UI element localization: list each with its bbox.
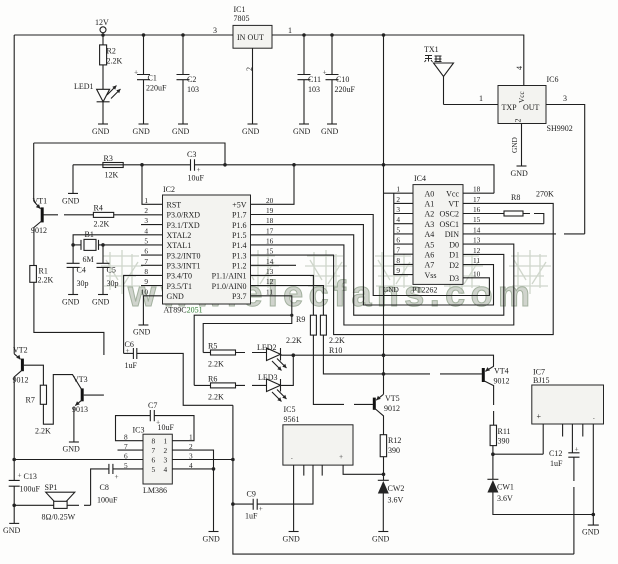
svg-text:1: 1 bbox=[396, 185, 400, 194]
svg-text:R9: R9 bbox=[296, 315, 305, 324]
svg-text:20: 20 bbox=[266, 196, 274, 205]
svg-text:C8: C8 bbox=[100, 483, 109, 492]
resistor R6 2.2K bbox=[194, 375, 266, 402]
svg-text:GND: GND bbox=[62, 298, 80, 307]
svg-text:P3.5/T1: P3.5/T1 bbox=[167, 282, 193, 291]
svg-text:390: 390 bbox=[388, 446, 400, 455]
crystal B1 6M bbox=[73, 230, 162, 264]
svg-text:8: 8 bbox=[144, 267, 148, 276]
ground C5 bbox=[92, 295, 110, 307]
resistor R3 12K bbox=[103, 154, 123, 180]
wire bottom rail bbox=[233, 405, 574, 554]
svg-text:2: 2 bbox=[164, 446, 168, 455]
svg-text:10uF: 10uF bbox=[158, 423, 175, 432]
svg-text:2: 2 bbox=[144, 206, 148, 215]
pin IC7 p2 bbox=[562, 424, 564, 437]
svg-text:GND: GND bbox=[63, 445, 81, 454]
svg-text:Vss: Vss bbox=[425, 271, 437, 280]
pin stub A0 bbox=[384, 192, 414, 194]
zener CW2 3.6V bbox=[378, 480, 405, 531]
pin IC5 stub2 bbox=[303, 465, 305, 476]
pin IC5 output to R12 node bbox=[343, 465, 383, 474]
svg-text:220uF: 220uF bbox=[335, 85, 356, 94]
svg-text:P1.0/AIN0: P1.0/AIN0 bbox=[212, 282, 247, 291]
pin 2 IC6 to ground bbox=[510, 124, 522, 167]
svg-text:IC1: IC1 bbox=[234, 5, 246, 14]
svg-text:12: 12 bbox=[266, 277, 274, 286]
resistor R7 2.2K bbox=[26, 385, 47, 404]
junction pin20 node bbox=[292, 163, 296, 167]
wire 5V distribution line R3 to IC4 Vcc bbox=[73, 165, 494, 193]
wire RST branch bbox=[142, 165, 163, 205]
svg-text:Vcc: Vcc bbox=[446, 189, 459, 198]
svg-text:3: 3 bbox=[213, 26, 217, 35]
junction C11 rail bbox=[302, 33, 306, 37]
svg-text:VT4: VT4 bbox=[494, 367, 509, 376]
pin IC7 p4 bbox=[582, 424, 584, 437]
svg-text:4: 4 bbox=[396, 215, 400, 224]
pin IC5 stub4 bbox=[321, 465, 323, 476]
svg-text:2.2K: 2.2K bbox=[329, 336, 345, 345]
wire DIN pin14 bbox=[463, 233, 585, 235]
resistor R11 390 bbox=[490, 425, 510, 445]
wire R9 to VT5 base bbox=[313, 335, 373, 404]
svg-text:.: . bbox=[291, 452, 293, 461]
svg-text:19: 19 bbox=[266, 206, 274, 215]
mcu IC2 right pin numbers bbox=[266, 196, 274, 296]
transistor VT1 9012 bbox=[31, 143, 47, 266]
junction speaker border bbox=[12, 504, 16, 508]
ground C2 bbox=[172, 124, 190, 136]
svg-text:2.2K: 2.2K bbox=[38, 276, 54, 285]
svg-text:XTAL2: XTAL2 bbox=[167, 231, 192, 240]
svg-text:9012: 9012 bbox=[384, 404, 400, 413]
svg-text:12: 12 bbox=[473, 246, 481, 255]
capacitor C12 1uF bbox=[549, 445, 580, 555]
svg-text:100uF: 100uF bbox=[20, 485, 41, 494]
svg-text:10: 10 bbox=[141, 287, 149, 296]
wire D2 net pin11 to P1.6 bbox=[251, 225, 494, 305]
ground C1 bbox=[133, 124, 151, 136]
junction C9 left bbox=[231, 502, 235, 506]
svg-text:2.2K: 2.2K bbox=[94, 220, 110, 229]
svg-text:9: 9 bbox=[144, 277, 148, 286]
svg-text:P3.4/T0: P3.4/T0 bbox=[167, 272, 193, 281]
svg-text:P1.2: P1.2 bbox=[232, 262, 246, 271]
ground C10 bbox=[321, 124, 339, 136]
svg-text:VT3: VT3 bbox=[73, 375, 88, 384]
svg-text:R10: R10 bbox=[329, 346, 342, 355]
svg-text:4: 4 bbox=[515, 66, 524, 70]
junction R12 IC5 bbox=[382, 473, 386, 477]
svg-text:1uF: 1uF bbox=[550, 459, 563, 468]
svg-text:12K: 12K bbox=[105, 171, 119, 180]
ground LED1 bbox=[92, 124, 110, 136]
ground CW1 node bbox=[582, 515, 600, 537]
wire pin20 +5V branch bbox=[251, 165, 295, 205]
junction B1 right bbox=[101, 243, 105, 247]
pin stub A4 bbox=[394, 233, 413, 235]
LED LED3 bbox=[258, 355, 293, 401]
svg-text:P3.1/TXD: P3.1/TXD bbox=[167, 221, 200, 230]
svg-text:GND: GND bbox=[510, 137, 519, 153]
svg-text:12V: 12V bbox=[95, 18, 109, 27]
junction R11 IC7 bbox=[491, 452, 495, 456]
junction CW1 gnd bbox=[592, 513, 596, 517]
svg-text:GND: GND bbox=[321, 127, 339, 136]
svg-text:LM386: LM386 bbox=[143, 486, 167, 495]
capacitor C7 10uF loop bbox=[116, 401, 195, 441]
svg-text:30p: 30p bbox=[77, 279, 89, 288]
wire P3.7 branch bbox=[194, 296, 292, 386]
svg-text:OSC2: OSC2 bbox=[439, 210, 459, 219]
junction bottom left pin3 bbox=[231, 458, 235, 462]
capacitor C4 30p bbox=[67, 245, 89, 295]
junction LED2 LED3 link bbox=[292, 353, 296, 357]
svg-text:+: + bbox=[259, 504, 263, 513]
svg-text:7: 7 bbox=[152, 446, 156, 455]
svg-text:3: 3 bbox=[144, 216, 148, 225]
junction C10 rail bbox=[330, 33, 334, 37]
svg-text:+: + bbox=[134, 68, 138, 77]
svg-text:GND: GND bbox=[92, 298, 110, 307]
svg-text:VT2: VT2 bbox=[13, 346, 28, 355]
svg-text:3: 3 bbox=[396, 205, 400, 214]
wire R11 node to IC7 pin bbox=[493, 453, 543, 455]
svg-text:R7: R7 bbox=[26, 396, 35, 405]
svg-text:C1: C1 bbox=[148, 74, 157, 83]
svg-text:2: 2 bbox=[396, 195, 400, 204]
svg-text:R4: R4 bbox=[94, 204, 103, 213]
pin stub A6 bbox=[394, 253, 413, 255]
svg-text:C2: C2 bbox=[187, 75, 196, 84]
svg-text:A1: A1 bbox=[425, 200, 435, 209]
wire D3 net pin10 to P1.7 bbox=[251, 215, 490, 296]
resistor R10 2.2K bbox=[320, 315, 345, 355]
ground IC3 p2 bbox=[203, 532, 221, 544]
ground C11 bbox=[293, 124, 311, 136]
ground C4 bbox=[62, 295, 80, 307]
svg-text:9: 9 bbox=[396, 266, 400, 275]
svg-text:18: 18 bbox=[266, 216, 274, 225]
svg-text:P1.4: P1.4 bbox=[232, 241, 246, 250]
svg-text:1: 1 bbox=[479, 94, 483, 103]
svg-text:C11: C11 bbox=[308, 75, 321, 84]
transistor VT3 9013 bbox=[72, 375, 104, 442]
svg-text:1uF: 1uF bbox=[125, 361, 138, 370]
pin stub A1 bbox=[394, 202, 413, 204]
svg-text:VT5: VT5 bbox=[385, 394, 400, 403]
resistor R1 2.2K bbox=[30, 266, 54, 285]
wire P1.0 to R10 bbox=[251, 286, 324, 316]
svg-text:A7: A7 bbox=[425, 261, 435, 270]
svg-text:6: 6 bbox=[152, 456, 156, 465]
transistor VT2 9012 bbox=[13, 346, 29, 385]
svg-text:C7: C7 bbox=[148, 401, 157, 410]
svg-text:LED3: LED3 bbox=[258, 373, 278, 382]
svg-text:VT: VT bbox=[448, 200, 459, 209]
svg-text:2.2K: 2.2K bbox=[35, 427, 51, 436]
encoder IC4 PT2262 body bbox=[413, 174, 463, 284]
svg-text:8Ω/0.25W: 8Ω/0.25W bbox=[42, 513, 76, 522]
svg-text:9013: 9013 bbox=[72, 405, 88, 414]
pin 2 IC1 to ground bbox=[245, 48, 254, 124]
svg-text:Vcc: Vcc bbox=[517, 90, 526, 103]
transistor VT4 9012 bbox=[466, 355, 510, 425]
junction 5V link node bbox=[223, 163, 227, 167]
resistor R9 2.2K bbox=[286, 315, 316, 345]
svg-text:9012: 9012 bbox=[31, 226, 47, 235]
svg-text:13: 13 bbox=[473, 236, 481, 245]
svg-text:2.2K: 2.2K bbox=[208, 360, 224, 369]
wire R7 jog to VT3 base bbox=[43, 375, 81, 425]
svg-text:R2: R2 bbox=[107, 47, 116, 56]
capacitor C1 220uF bbox=[134, 35, 167, 124]
svg-text:RST: RST bbox=[167, 201, 182, 210]
svg-text:5: 5 bbox=[152, 465, 156, 474]
antenna TX1 bbox=[424, 45, 454, 105]
svg-text:P3.0/RXD: P3.0/RXD bbox=[167, 211, 201, 220]
svg-text:5: 5 bbox=[144, 236, 148, 245]
pin IC7 p3 to C12 bbox=[571, 424, 573, 453]
svg-text:LED1: LED1 bbox=[74, 82, 94, 91]
pin stub A5 bbox=[394, 243, 413, 245]
svg-text:SP1: SP1 bbox=[45, 483, 58, 492]
svg-text:GND: GND bbox=[92, 127, 110, 136]
svg-text:BJ15: BJ15 bbox=[533, 376, 549, 385]
svg-text:1: 1 bbox=[144, 196, 148, 205]
svg-text:GND: GND bbox=[383, 285, 399, 294]
junction B1 left bbox=[71, 243, 75, 247]
svg-text:390: 390 bbox=[498, 437, 510, 446]
svg-text:3: 3 bbox=[563, 94, 567, 103]
junction P3.7 R6 bbox=[290, 314, 293, 317]
svg-text:P1.5: P1.5 bbox=[232, 231, 246, 240]
svg-text:GND: GND bbox=[62, 196, 80, 205]
svg-text:P3.3/INT1: P3.3/INT1 bbox=[167, 262, 201, 271]
svg-text:11: 11 bbox=[266, 287, 273, 296]
wire OSC1 pin15 bbox=[463, 223, 544, 225]
svg-text:R12: R12 bbox=[388, 436, 401, 445]
svg-text:GND: GND bbox=[511, 169, 529, 178]
resistor R8 270K bbox=[463, 190, 554, 224]
wire +12V top rail left segment bbox=[14, 34, 233, 36]
svg-text:GND: GND bbox=[242, 127, 260, 136]
svg-text:4: 4 bbox=[144, 226, 148, 235]
svg-text:8: 8 bbox=[152, 437, 156, 446]
svg-text:R8: R8 bbox=[511, 193, 520, 202]
svg-text:P3.7: P3.7 bbox=[232, 292, 246, 301]
svg-text:5: 5 bbox=[396, 225, 400, 234]
svg-text:17: 17 bbox=[473, 195, 481, 204]
svg-text:100uF: 100uF bbox=[97, 496, 118, 505]
svg-text:CW1: CW1 bbox=[497, 483, 514, 492]
svg-text:+: + bbox=[18, 471, 22, 480]
pin stub A7 bbox=[394, 263, 413, 265]
sound chip IC5 9561 body bbox=[283, 405, 353, 465]
svg-text:4: 4 bbox=[164, 465, 168, 474]
junction C2 rail bbox=[181, 33, 185, 37]
wire VT2 base to R7 bbox=[24, 365, 44, 385]
pin stub P3.2 bbox=[141, 254, 163, 256]
wire top rail right segment from IC1 out to IC6 pin4 drop bbox=[272, 35, 524, 86]
svg-text:7805: 7805 bbox=[234, 14, 250, 23]
wire 5V node to VT1 emitter top link bbox=[34, 143, 225, 165]
capacitor C8 100uF bbox=[91, 464, 143, 505]
svg-text:18: 18 bbox=[473, 185, 481, 194]
mcu IC2 left pin numbers bbox=[141, 196, 149, 296]
svg-text:GND: GND bbox=[582, 528, 600, 537]
svg-text:220uF: 220uF bbox=[146, 84, 167, 93]
ground IC2 bbox=[133, 325, 151, 337]
svg-text:17: 17 bbox=[266, 226, 274, 235]
svg-text:GND: GND bbox=[203, 535, 221, 544]
svg-text:GND: GND bbox=[133, 328, 151, 337]
svg-text:GND: GND bbox=[283, 535, 301, 544]
speaker SP1 bbox=[14, 483, 90, 522]
svg-text:R11: R11 bbox=[498, 427, 511, 436]
junction spine 5V node bbox=[382, 163, 386, 167]
svg-text:.: . bbox=[593, 412, 595, 421]
pin IC5 gnd bbox=[293, 465, 295, 531]
encoder IC4 pin name labels bbox=[425, 189, 460, 283]
svg-text:C13: C13 bbox=[24, 472, 37, 481]
svg-text:+: + bbox=[339, 452, 343, 461]
capacitor C9 1uF bbox=[233, 490, 263, 521]
svg-text:+: + bbox=[537, 412, 542, 421]
pin IC7 p5 to gnd bbox=[592, 424, 594, 515]
svg-text:R6: R6 bbox=[208, 375, 217, 384]
svg-text:IC5: IC5 bbox=[284, 405, 296, 414]
capacitor C2 103 bbox=[177, 35, 200, 124]
svg-text:C4: C4 bbox=[77, 266, 86, 275]
svg-text:PT2262: PT2262 bbox=[412, 286, 437, 295]
wire R11 to CW1 bbox=[492, 446, 494, 480]
svg-text:R5: R5 bbox=[208, 342, 217, 351]
pin stub A3 bbox=[394, 223, 413, 225]
junction border p6 bbox=[12, 458, 16, 462]
pin stub A2 bbox=[394, 213, 413, 215]
svg-text:GND: GND bbox=[167, 292, 185, 301]
wire R10 to VT4 base bbox=[323, 335, 482, 374]
svg-text:AT89C2051: AT89C2051 bbox=[164, 306, 203, 315]
zener CW1 3.6V bbox=[487, 479, 593, 514]
ground CW2 bbox=[372, 532, 390, 544]
svg-text:D0: D0 bbox=[449, 240, 459, 249]
svg-text:2: 2 bbox=[245, 67, 254, 71]
svg-text:103: 103 bbox=[308, 85, 320, 94]
transistor VT5 9012 bbox=[374, 394, 400, 435]
capacitor C5 30p bbox=[97, 245, 119, 295]
svg-text:P1.6: P1.6 bbox=[232, 221, 246, 230]
watermark chinese characters bbox=[101, 250, 551, 294]
pin stub P3.1 bbox=[141, 224, 163, 226]
wire P1.1 to R9 bbox=[251, 275, 314, 315]
junction p4 p2 bbox=[212, 467, 216, 471]
wire R1 to VT3 collector node bbox=[34, 282, 104, 355]
svg-text:TXP: TXP bbox=[502, 103, 518, 112]
svg-text:SH9902: SH9902 bbox=[547, 124, 573, 133]
svg-text:9012: 9012 bbox=[13, 376, 29, 385]
svg-text:B1: B1 bbox=[85, 230, 94, 239]
svg-text:XTAL1: XTAL1 bbox=[167, 241, 192, 250]
svg-text:14: 14 bbox=[266, 257, 274, 266]
svg-text:P1.7: P1.7 bbox=[232, 211, 246, 220]
svg-text:30p: 30p bbox=[107, 279, 119, 288]
wire VT2 collector down border bbox=[13, 381, 15, 480]
pin stub P3.5 bbox=[141, 285, 163, 287]
wire P3.4/T0 to C6 bbox=[124, 275, 163, 353]
mcu IC2 AT89C2051 body bbox=[163, 185, 251, 304]
LED LED2 bbox=[257, 343, 466, 371]
svg-text:D1: D1 bbox=[449, 251, 459, 260]
svg-text:+: + bbox=[323, 68, 327, 77]
svg-text:IC4: IC4 bbox=[414, 174, 426, 183]
svg-text:D3: D3 bbox=[449, 274, 459, 283]
pin stub IC3 p7 bbox=[118, 449, 144, 451]
svg-text:VT1: VT1 bbox=[33, 197, 48, 206]
amplifier IC3 outside pin numbers bbox=[124, 433, 193, 470]
svg-text:CW2: CW2 bbox=[388, 484, 405, 493]
junction 5V spine rail bbox=[382, 33, 386, 37]
node 12V supply bbox=[95, 18, 109, 37]
svg-text:11: 11 bbox=[473, 256, 480, 265]
wire IC3 p3 bbox=[172, 459, 233, 461]
wire IC3 p6 to border bbox=[14, 459, 143, 461]
svg-text:GND: GND bbox=[3, 526, 21, 535]
audio ic IC7 BJ15 body bbox=[532, 368, 604, 425]
svg-text:A5: A5 bbox=[425, 240, 435, 249]
resistor R12 390 bbox=[380, 435, 401, 457]
amplifier IC3 LM386 body bbox=[133, 426, 173, 496]
capacitor C13 100uF bbox=[9, 471, 41, 524]
svg-text:2: 2 bbox=[514, 119, 523, 123]
svg-text:14: 14 bbox=[473, 225, 481, 234]
svg-text:10uF: 10uF bbox=[188, 174, 205, 183]
svg-text:P1.3: P1.3 bbox=[232, 251, 246, 260]
ground IC6 bbox=[511, 166, 529, 178]
svg-text:C12: C12 bbox=[549, 449, 562, 458]
capacitor C3 10uF bbox=[187, 150, 205, 183]
svg-text:3: 3 bbox=[164, 456, 168, 465]
wire antenna to IC6 pin1 bbox=[444, 94, 499, 105]
junction RST node bbox=[140, 163, 144, 167]
wire IC3 p4 bbox=[172, 468, 213, 470]
wire IC4 address tie bus bbox=[394, 193, 413, 274]
svg-text:10: 10 bbox=[473, 269, 481, 278]
resistor R5 2.2K bbox=[203, 342, 266, 369]
amplifier IC3 inside pin numbers bbox=[152, 437, 168, 474]
pin IC7 p1 bbox=[542, 424, 544, 454]
wire XTAL2 jog bbox=[73, 235, 162, 245]
wire D0 net pin13 to P1.4 bbox=[251, 244, 514, 325]
svg-text:7: 7 bbox=[396, 246, 400, 255]
svg-text:1: 1 bbox=[288, 26, 292, 35]
svg-text:2.2K: 2.2K bbox=[208, 393, 224, 402]
pin IC5 to C9 bbox=[257, 465, 313, 504]
svg-text:+: + bbox=[115, 472, 119, 481]
svg-text:C9: C9 bbox=[247, 490, 256, 499]
ground C13 bbox=[3, 523, 21, 535]
svg-text:+5V: +5V bbox=[232, 201, 247, 210]
capacitor C10 220uF bbox=[323, 35, 356, 124]
svg-text:7: 7 bbox=[144, 257, 148, 266]
ground VT3 bbox=[63, 442, 81, 454]
svg-text:270K: 270K bbox=[536, 190, 554, 199]
wire R12 to CW2 node bbox=[383, 457, 385, 481]
svg-text:IC2: IC2 bbox=[163, 185, 175, 194]
svg-text:LED2: LED2 bbox=[257, 343, 277, 352]
